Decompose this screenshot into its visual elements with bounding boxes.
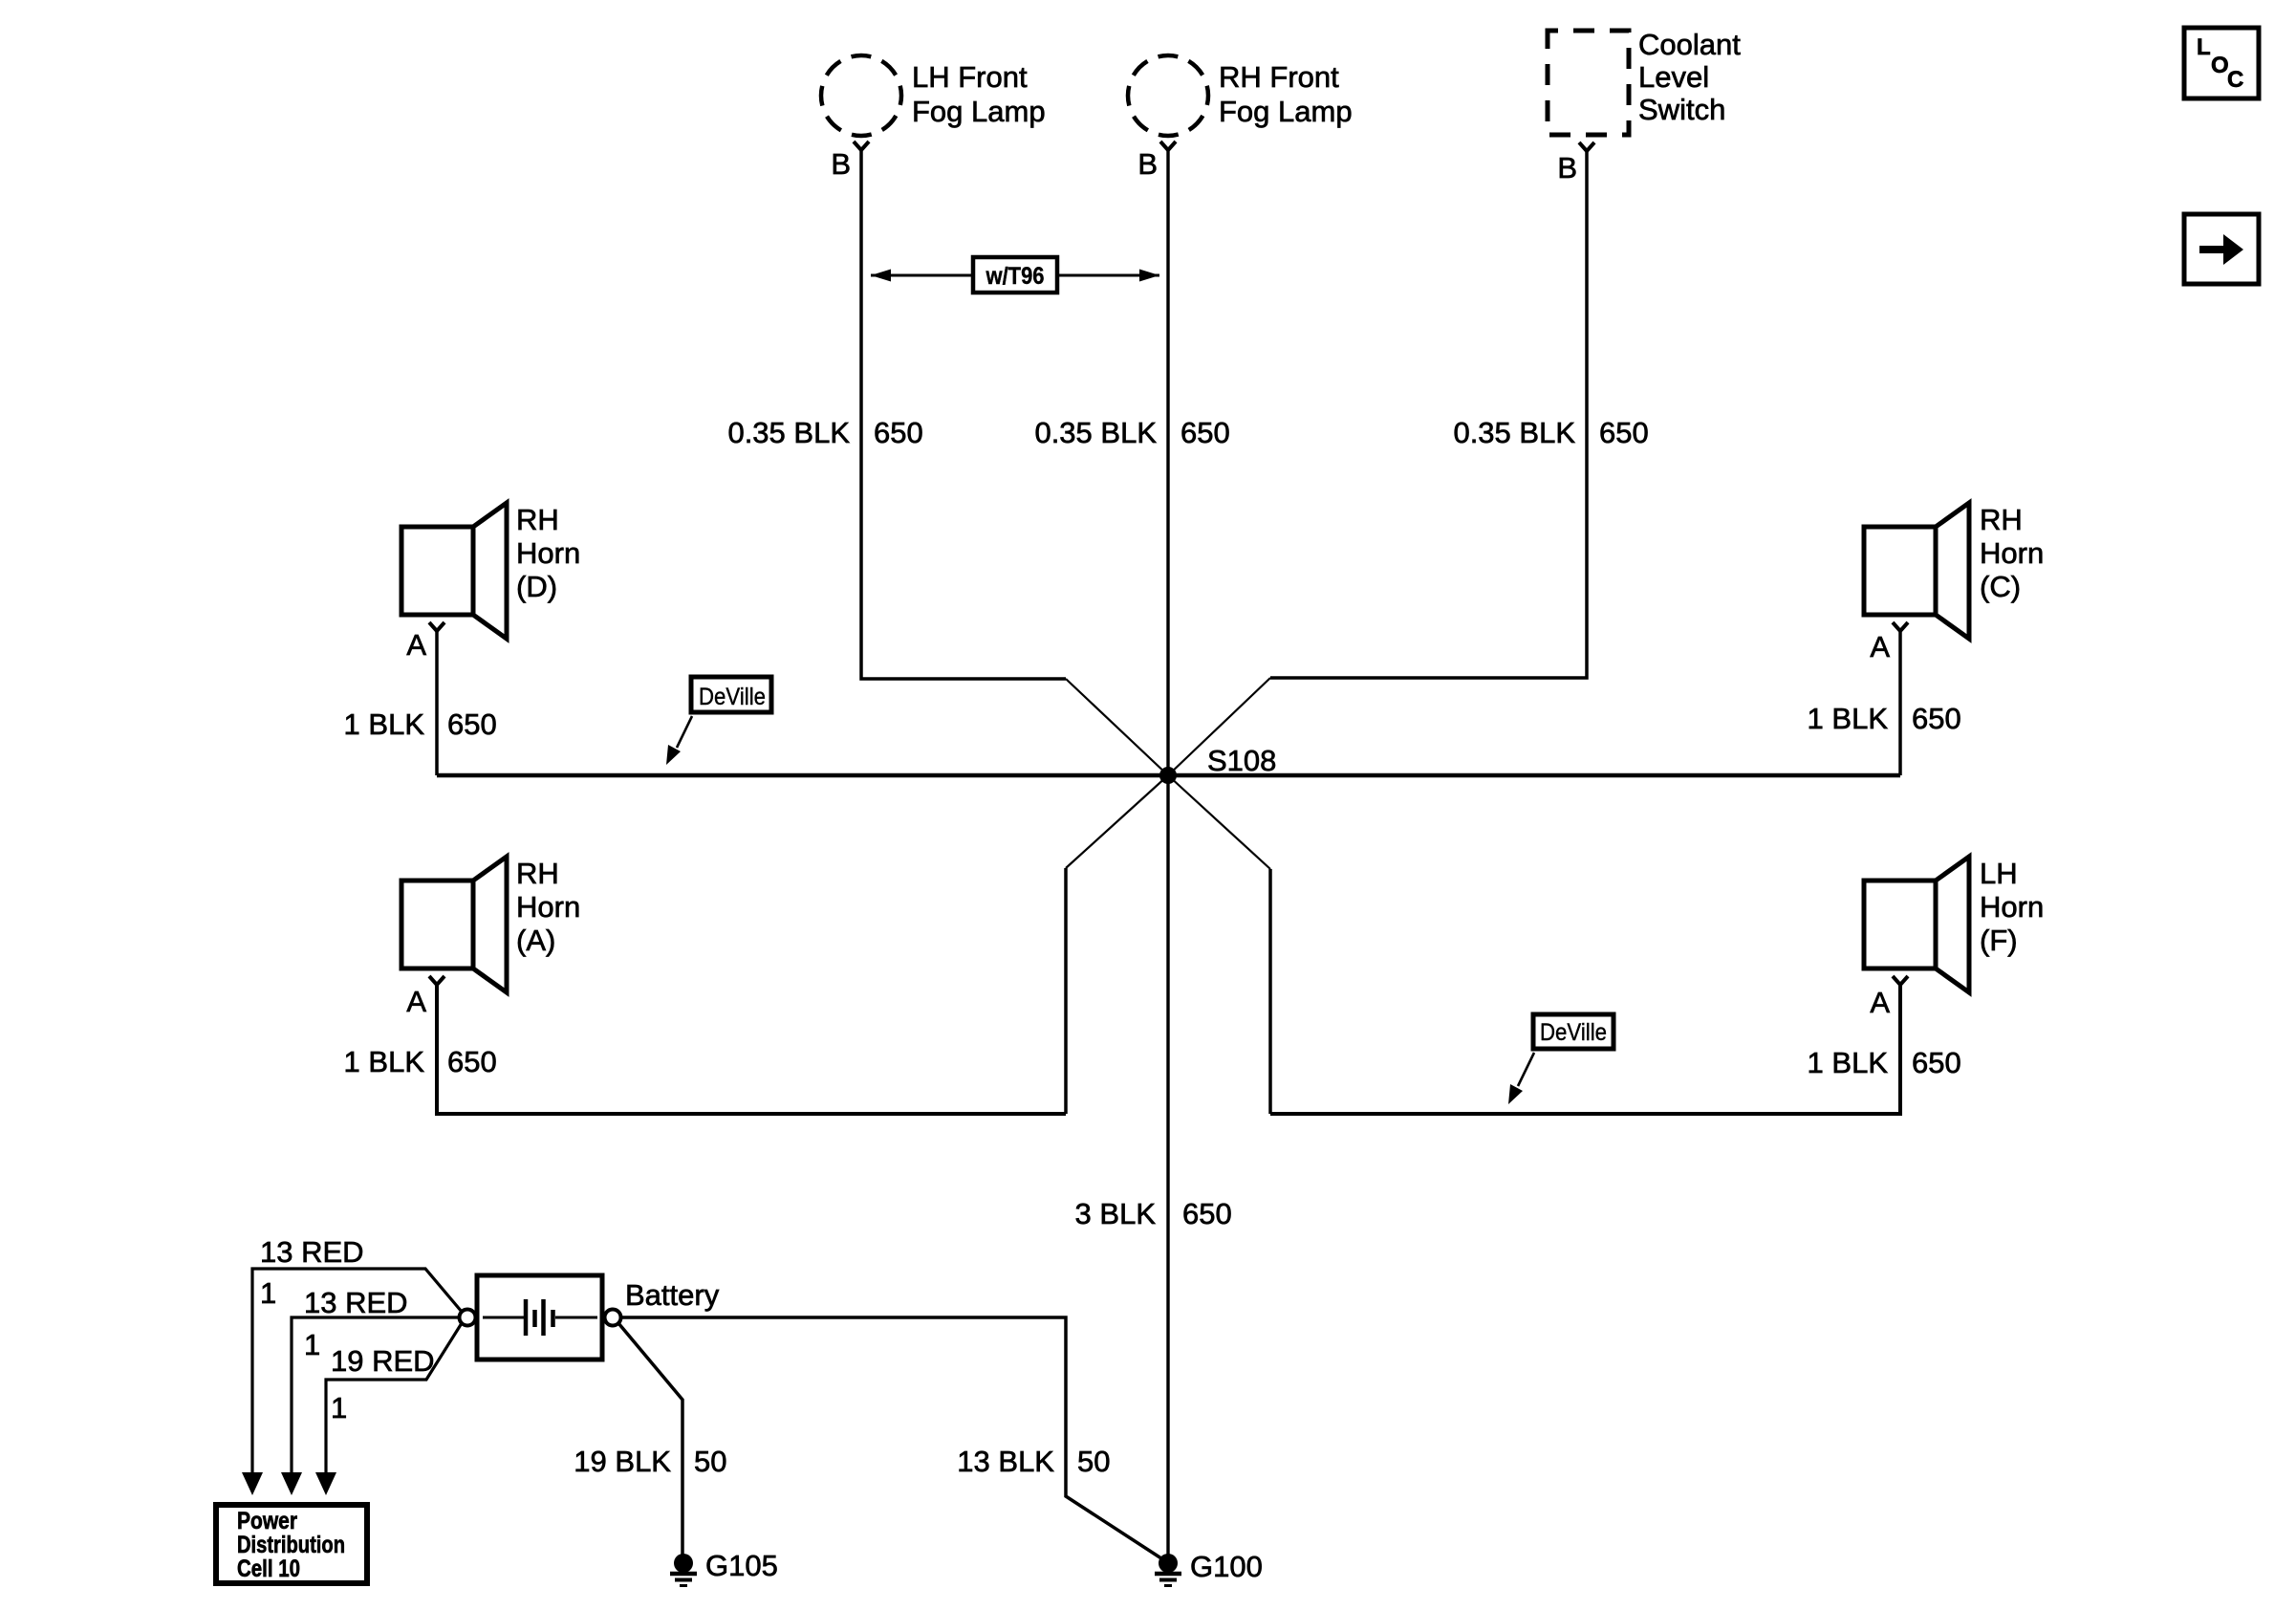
svg-text:Coolant: Coolant xyxy=(1638,28,1741,61)
svg-text:RH: RH xyxy=(516,503,559,536)
arrow legend box xyxy=(2184,214,2259,284)
wire 13 BLK 50 battery negative to G100 xyxy=(620,1317,1164,1560)
svg-text:w/T96: w/T96 xyxy=(986,263,1045,290)
svg-text:B: B xyxy=(831,147,851,181)
svg-text:650: 650 xyxy=(1182,1197,1232,1230)
wire 0.35 BLK 650 from coolant level switch to S108 xyxy=(1270,150,1587,678)
pin A of RH Horn (C) xyxy=(1893,622,1908,631)
LOC legend box xyxy=(2184,28,2259,98)
pin A of RH Horn (D) xyxy=(429,622,444,631)
svg-text:1 BLK: 1 BLK xyxy=(344,1045,425,1078)
svg-text:A: A xyxy=(406,628,426,662)
DeVille arrow (right) xyxy=(1518,1053,1534,1086)
svg-text:RH: RH xyxy=(1980,503,2023,536)
wire 0.35 BLK 650 / 3 BLK 650 from RH fog lamp through S108 to G100 xyxy=(1166,149,1169,1559)
svg-text:650: 650 xyxy=(447,707,497,741)
DeVille label box (left) xyxy=(691,677,771,712)
svg-text:1 BLK: 1 BLK xyxy=(1808,702,1889,735)
svg-text:Horn: Horn xyxy=(1980,890,2044,924)
svg-text:LH Front: LH Front xyxy=(912,60,1028,94)
svg-text:Cell 10: Cell 10 xyxy=(237,1556,300,1582)
DeVille arrow (left) xyxy=(677,716,692,748)
pin B of LH fog lamp (Y connector) xyxy=(854,141,869,150)
svg-text:50: 50 xyxy=(694,1445,726,1478)
svg-text:B: B xyxy=(1137,147,1158,181)
main ground bus wire (horn D to horn C through S108) xyxy=(437,773,1900,778)
svg-text:0.35 BLK: 0.35 BLK xyxy=(727,416,850,449)
Battery xyxy=(477,1275,602,1360)
splice S108 xyxy=(1159,767,1177,784)
wire 13 RED (top) battery to power distribution xyxy=(252,1269,462,1476)
svg-text:(D): (D) xyxy=(516,570,557,603)
pin B of coolant level switch (Y connector) xyxy=(1579,142,1594,151)
RH Front Fog Lamp (dashed lamp circle) xyxy=(1128,55,1208,136)
LH Horn (F) speaker symbol xyxy=(1864,881,1936,968)
svg-text:Fog Lamp: Fog Lamp xyxy=(1219,95,1353,128)
wire 1 BLK 650 from RH Horn (D) to S108 xyxy=(435,630,439,775)
wire diagonal into S108 xyxy=(1066,679,1168,775)
svg-text:DeVille: DeVille xyxy=(1540,1019,1607,1046)
RH Horn (C) speaker symbol xyxy=(1864,527,1936,615)
pin A of LH Horn (F) xyxy=(1893,976,1908,985)
svg-text:G100: G100 xyxy=(1190,1550,1263,1583)
ground G100 xyxy=(1159,1554,1178,1573)
DeVille label box (right) xyxy=(1533,1014,1614,1049)
pin A of RH Horn (A) xyxy=(429,976,444,985)
svg-text:1 BLK: 1 BLK xyxy=(344,707,425,741)
svg-text:650: 650 xyxy=(1599,416,1649,449)
svg-text:RH Front: RH Front xyxy=(1219,60,1339,94)
svg-text:Power: Power xyxy=(237,1508,297,1534)
wire diagonal into S108 xyxy=(1066,775,1168,868)
svg-text:C: C xyxy=(2227,67,2243,93)
svg-text:3 BLK: 3 BLK xyxy=(1075,1197,1157,1230)
svg-text:A: A xyxy=(1870,986,1890,1019)
svg-text:Level: Level xyxy=(1638,60,1709,94)
svg-text:0.35 BLK: 0.35 BLK xyxy=(1034,416,1157,449)
wire 1 BLK 650 from LH Horn (F) to S108 xyxy=(1270,984,1900,1114)
RH Horn (A) speaker symbol xyxy=(401,881,473,968)
ground G105 xyxy=(674,1554,693,1573)
Power Distribution Cell 10 box xyxy=(216,1505,367,1583)
w/T96 label box xyxy=(973,257,1057,293)
svg-text:1: 1 xyxy=(331,1391,347,1425)
svg-text:19 BLK: 19 BLK xyxy=(574,1445,671,1478)
wire 19 BLK 50 battery negative to G105 xyxy=(618,1323,682,1558)
svg-text:G105: G105 xyxy=(705,1549,778,1582)
Coolant Level Switch (dashed box) xyxy=(1548,31,1629,135)
svg-text:DeVille: DeVille xyxy=(699,684,766,710)
svg-text:A: A xyxy=(1870,630,1890,664)
svg-text:0.35 BLK: 0.35 BLK xyxy=(1453,416,1575,449)
RH Horn (D) speaker symbol xyxy=(401,527,473,615)
svg-text:1: 1 xyxy=(304,1328,320,1361)
battery negative terminal xyxy=(605,1310,621,1326)
svg-text:L: L xyxy=(2197,34,2211,60)
wire 1 BLK 650 from RH Horn (A) to S108 xyxy=(437,984,1066,1114)
svg-text:Fog Lamp: Fog Lamp xyxy=(912,95,1046,128)
svg-text:50: 50 xyxy=(1077,1445,1110,1478)
svg-text:1: 1 xyxy=(260,1276,276,1310)
svg-text:13 RED: 13 RED xyxy=(304,1286,408,1319)
svg-text:650: 650 xyxy=(447,1045,497,1078)
w/T96 range arrow xyxy=(871,274,1159,277)
svg-text:13 BLK: 13 BLK xyxy=(957,1445,1054,1478)
svg-text:(A): (A) xyxy=(516,924,555,957)
svg-text:Horn: Horn xyxy=(516,536,580,570)
wire 13 RED (middle) battery to power distribution xyxy=(292,1317,459,1476)
svg-text:A: A xyxy=(406,985,426,1018)
svg-text:650: 650 xyxy=(1180,416,1230,449)
svg-text:13 RED: 13 RED xyxy=(260,1235,364,1269)
svg-text:LH: LH xyxy=(1980,857,2018,890)
svg-text:19 RED: 19 RED xyxy=(331,1344,435,1378)
svg-text:650: 650 xyxy=(874,416,923,449)
svg-text:RH: RH xyxy=(516,857,559,890)
LH Front Fog Lamp (dashed lamp circle) xyxy=(821,55,901,136)
svg-text:Distribution: Distribution xyxy=(237,1532,345,1558)
wire 0.35 BLK 650 from LH fog lamp to S108 xyxy=(861,149,1066,679)
svg-text:(F): (F) xyxy=(1980,924,2018,957)
svg-text:650: 650 xyxy=(1912,702,1961,735)
svg-text:(C): (C) xyxy=(1980,570,2021,603)
svg-text:O: O xyxy=(2211,53,2229,78)
wire diagonal into S108 xyxy=(1168,678,1270,775)
battery positive terminal xyxy=(460,1310,476,1326)
svg-text:Horn: Horn xyxy=(1980,536,2044,570)
svg-text:Horn: Horn xyxy=(516,890,580,924)
svg-text:Switch: Switch xyxy=(1638,93,1725,126)
svg-text:S108: S108 xyxy=(1207,744,1276,777)
svg-text:B: B xyxy=(1557,151,1577,185)
svg-text:650: 650 xyxy=(1912,1046,1961,1079)
svg-text:Battery: Battery xyxy=(625,1278,720,1312)
pin B of RH fog lamp (Y connector) xyxy=(1160,141,1176,150)
wire diagonal into S108 xyxy=(1168,775,1270,869)
wire 19 RED battery to power distribution xyxy=(326,1323,462,1476)
wire 1 BLK 650 from RH Horn (C) to S108 xyxy=(1898,630,1902,775)
svg-text:1 BLK: 1 BLK xyxy=(1808,1046,1889,1079)
